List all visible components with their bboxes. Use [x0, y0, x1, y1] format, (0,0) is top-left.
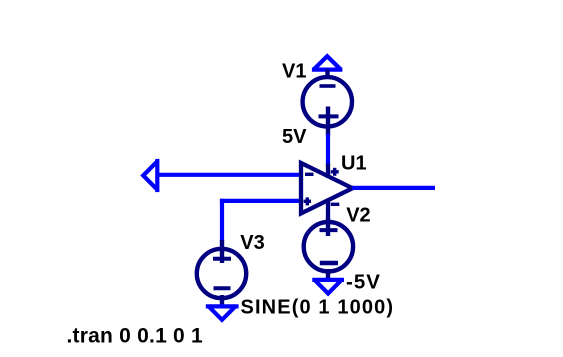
- power flag (ground symbol rotated 180, above V1): [312, 56, 343, 69]
- wire from V3 up and right to non-inverting input (vertical): [220, 199, 224, 241]
- svg-text:.tran 0 0.1 0 1: .tran 0 0.1 0 1: [67, 325, 203, 348]
- negative supply pin stub: [326, 200, 330, 223]
- svg-text:-5V: -5V: [346, 271, 381, 294]
- negative supply minus marker: [331, 203, 340, 206]
- svg-text:V1: V1: [282, 61, 306, 83]
- wire from U1 output to the right: [352, 186, 435, 190]
- svg-text:5V: 5V: [282, 126, 307, 148]
- voltage source V2 (plus up, minus down): [304, 218, 353, 279]
- inverting input minus marker: [305, 173, 314, 176]
- svg-text:V2: V2: [346, 205, 370, 227]
- wire from left flag to inverting input: [157, 173, 303, 177]
- ground flag below V2: [312, 280, 344, 294]
- voltage source V1 (flipped: minus up, plus down): [303, 70, 352, 136]
- svg-text:V3: V3: [240, 232, 264, 254]
- voltage source V3 (plus up, minus down): [197, 240, 246, 306]
- wire V1 to U1 positive supply: [326, 134, 330, 166]
- positive supply pin stub: [326, 164, 330, 179]
- wire from V3 to non-inverting input (horizontal): [220, 199, 303, 203]
- ground flag below V3: [206, 306, 239, 319]
- svg-text:U1: U1: [341, 153, 367, 175]
- non-inverting input plus marker: [304, 200, 311, 203]
- svg-text:SINE(0 1 1000): SINE(0 1 1000): [241, 297, 395, 319]
- positive supply plus marker: [331, 170, 339, 173]
- net flag (left arrow on inverting input wire): [143, 159, 157, 192]
- op-amp U1: [301, 163, 353, 222]
